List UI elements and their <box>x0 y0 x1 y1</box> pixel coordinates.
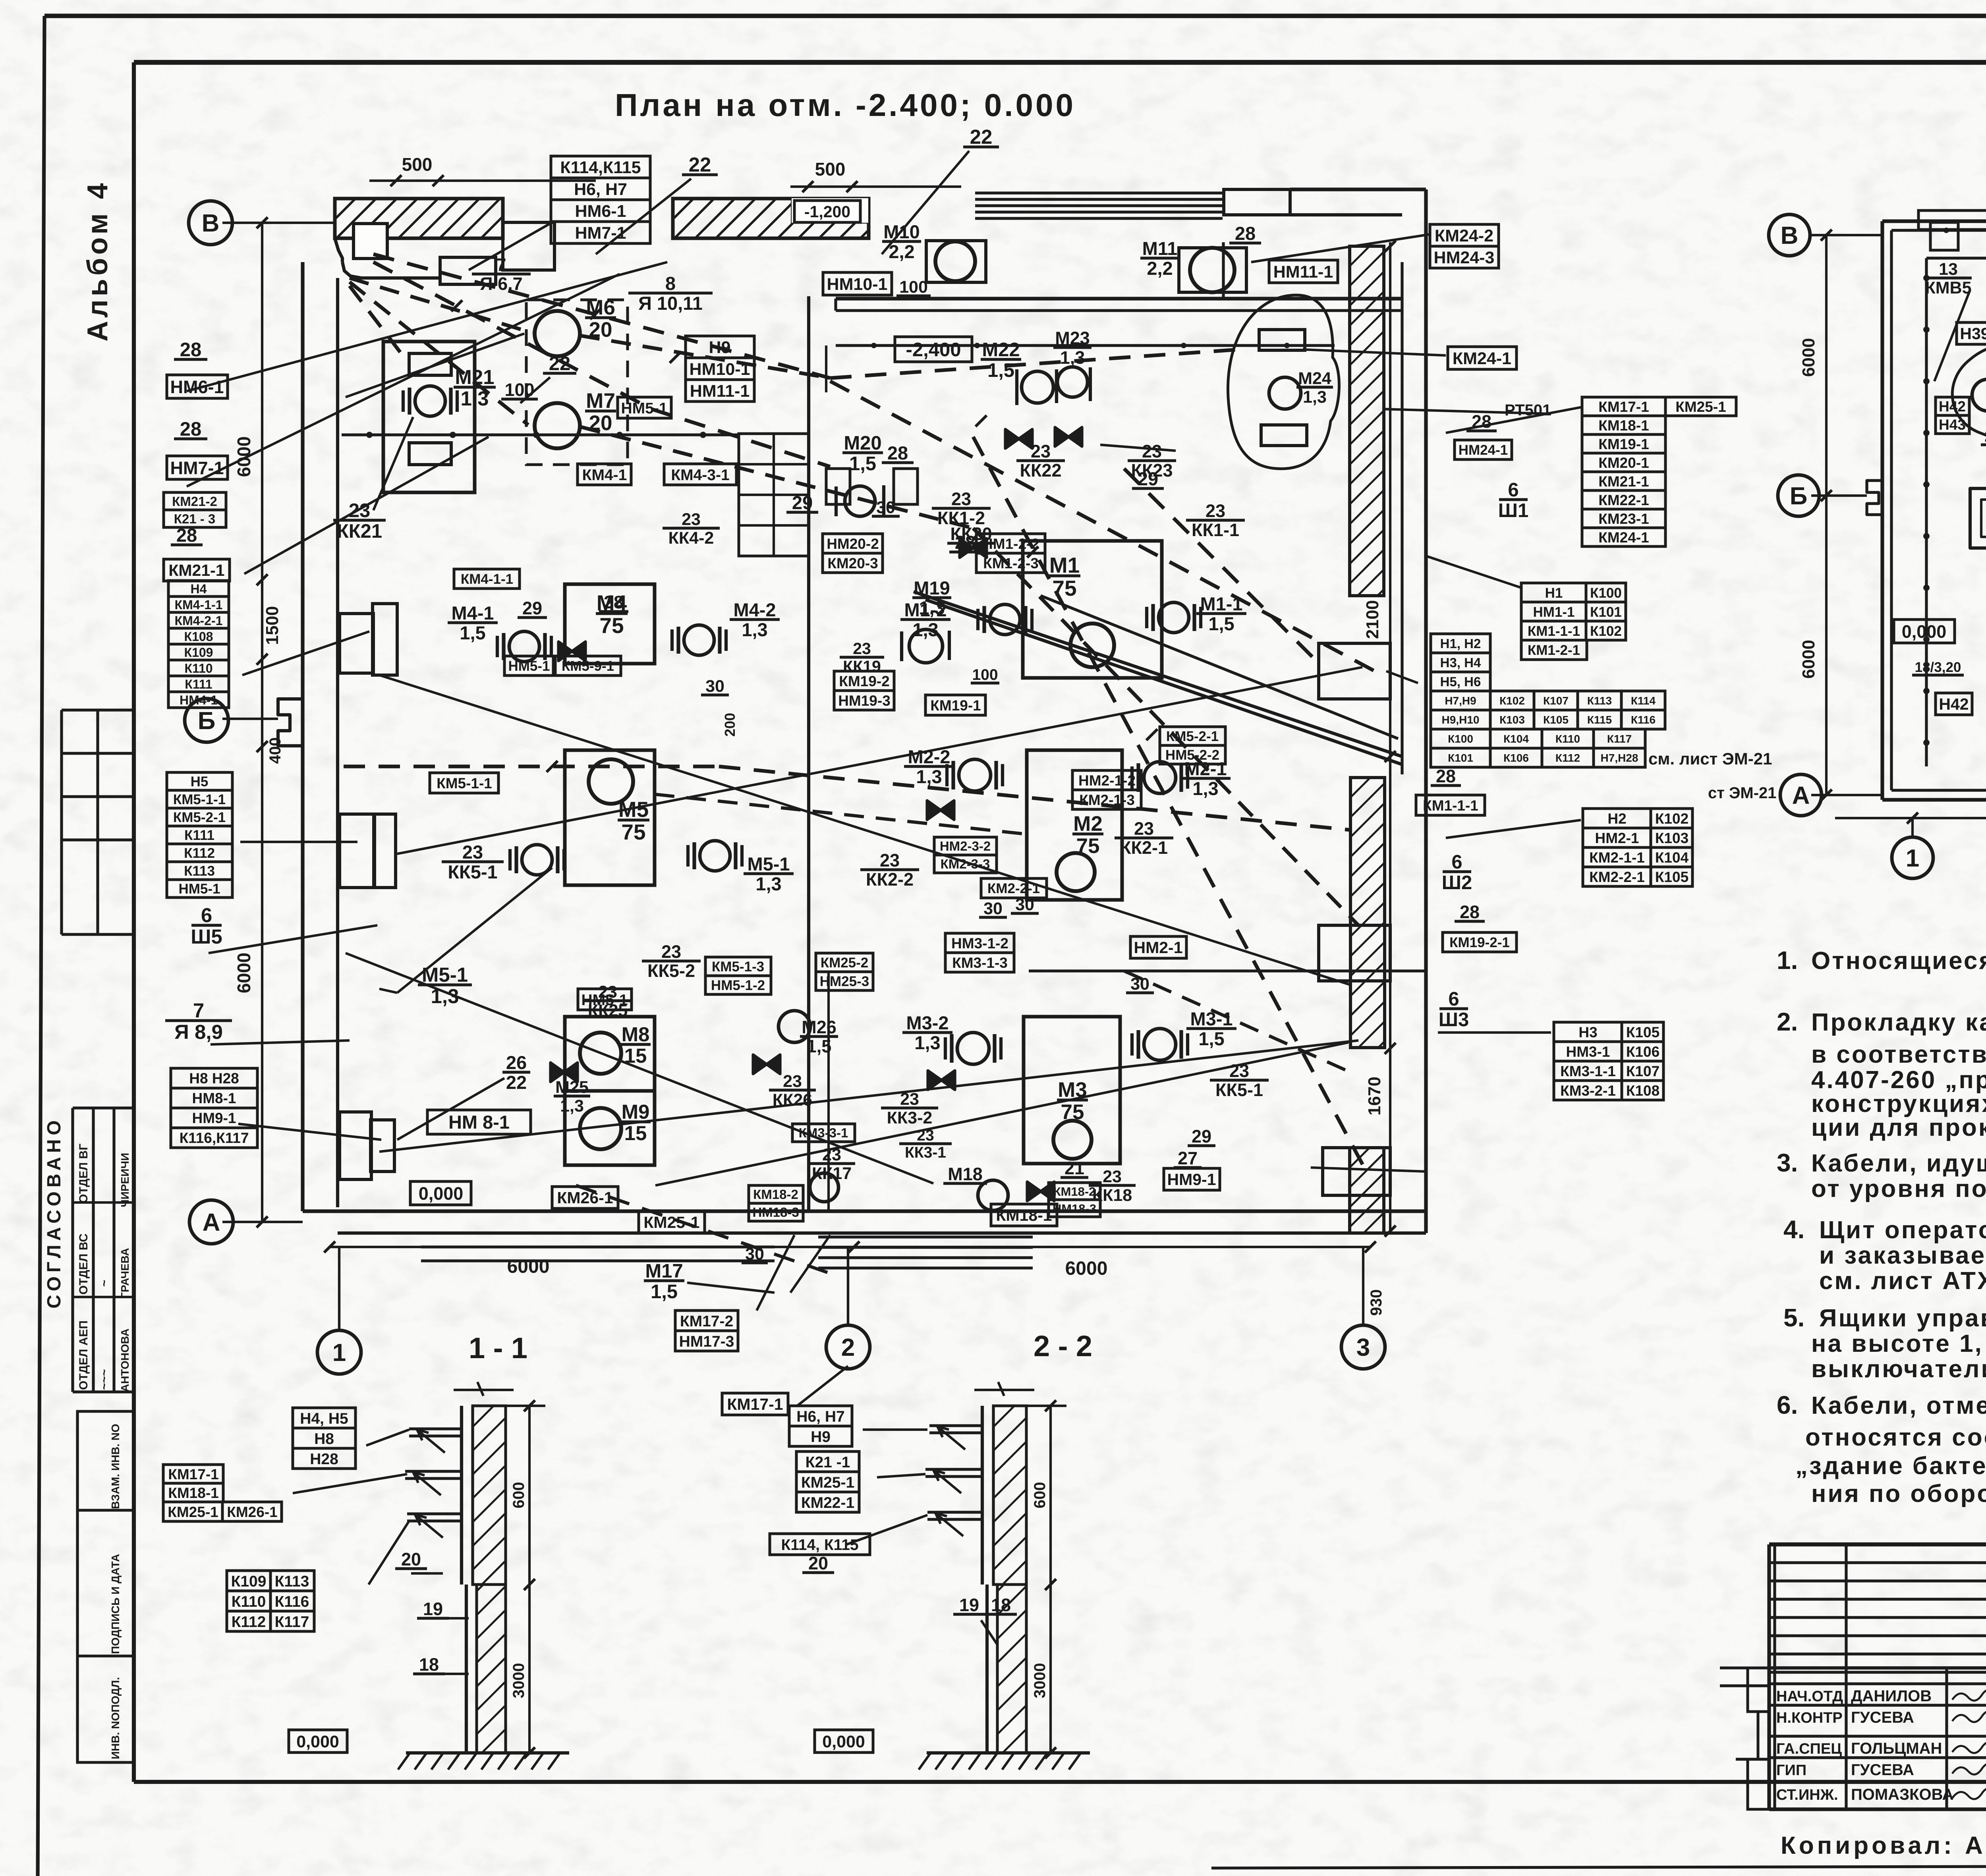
svg-text:КМ25-1: КМ25-1 <box>1675 399 1726 415</box>
svg-text:НМ10-1: НМ10-1 <box>690 360 750 379</box>
svg-text:КМ25-1: КМ25-1 <box>168 1504 218 1520</box>
svg-text:К111: К111 <box>184 828 214 843</box>
svg-text:КМ2-3-3: КМ2-3-3 <box>941 857 990 871</box>
svg-text:Н5: Н5 <box>191 774 209 789</box>
svg-text:ЧИРЕИЧИ: ЧИРЕИЧИ <box>119 1153 131 1207</box>
svg-text:План на отм. -2.400; 0.000: План на отм. -2.400; 0.000 <box>615 87 1076 123</box>
svg-text:НМ3-1-2: НМ3-1-2 <box>951 935 1008 952</box>
svg-text:1: 1 <box>332 1339 346 1366</box>
svg-text:6: 6 <box>201 904 212 926</box>
svg-text:1,3: 1,3 <box>1192 778 1218 799</box>
svg-text:КМ4-2-1: КМ4-2-1 <box>175 614 223 628</box>
svg-text:КМ5-2-1: КМ5-2-1 <box>173 810 226 825</box>
svg-text:К102: К102 <box>1655 811 1688 827</box>
svg-text:ции для прокладки кабелей: ции для прокладки кабелей". <box>1811 1114 1986 1141</box>
svg-text:НМ18-3: НМ18-3 <box>752 1205 799 1220</box>
svg-text:см. лист АТХ -9.: см. лист АТХ -9. <box>1819 1267 1986 1295</box>
svg-text:М3-2: М3-2 <box>906 1012 949 1033</box>
svg-text:КМ25-1: КМ25-1 <box>801 1474 854 1491</box>
svg-text:1,5: 1,5 <box>1198 1028 1224 1049</box>
svg-text:28: 28 <box>180 419 202 440</box>
svg-text:КМВ5: КМВ5 <box>1925 278 1971 297</box>
svg-text:Копировал: Алешцкова: Копировал: Алешцкова <box>1781 1832 1986 1859</box>
svg-text:в соответствии с типовыми: в соответствии с типовыми проектами <box>1811 1041 1986 1068</box>
svg-text:-1,200: -1,200 <box>804 203 850 221</box>
svg-text:КМ2-2-1: КМ2-2-1 <box>1589 869 1645 885</box>
svg-text:Н1, Н2: Н1, Н2 <box>1440 636 1481 651</box>
svg-text:КМ18-2: КМ18-2 <box>1053 1185 1096 1199</box>
svg-text:В: В <box>1781 222 1799 249</box>
svg-text:Н.КОНТР: Н.КОНТР <box>1776 1710 1843 1726</box>
svg-text:ОТДЕЛ ВС: ОТДЕЛ ВС <box>77 1233 90 1295</box>
svg-text:НМ5-1: НМ5-1 <box>581 992 628 1009</box>
svg-text:30: 30 <box>705 677 724 696</box>
svg-text:К110: К110 <box>184 661 213 676</box>
svg-text:Н7,Н9: Н7,Н9 <box>1445 695 1476 707</box>
svg-text:23: 23 <box>661 942 681 962</box>
svg-text:Щит оператора що устанавл: Щит оператора що устанавливается <box>1819 1216 1986 1244</box>
svg-text:23: 23 <box>917 1127 934 1144</box>
svg-text:1 - 1: 1 - 1 <box>469 1332 527 1365</box>
svg-text:23: 23 <box>853 639 871 658</box>
svg-text:М24: М24 <box>1298 369 1331 388</box>
svg-text:75: 75 <box>621 820 645 844</box>
svg-text:8: 8 <box>665 273 676 294</box>
svg-text:КМ25-1: КМ25-1 <box>643 1213 699 1231</box>
svg-text:К106: К106 <box>1626 1044 1660 1060</box>
svg-text:КК4-2: КК4-2 <box>668 529 714 548</box>
svg-text:на высоте 1, 2 м от уровня: на высоте 1, 2 м от уровня пола , пускат… <box>1811 1330 1986 1357</box>
svg-text:6.: 6. <box>1777 1391 1798 1419</box>
svg-text:28: 28 <box>180 339 202 361</box>
svg-text:1,3: 1,3 <box>1060 347 1085 368</box>
svg-text:30: 30 <box>876 498 895 517</box>
svg-text:М18: М18 <box>948 1164 983 1184</box>
svg-text:5.: 5. <box>1783 1303 1804 1332</box>
svg-text:НАЧ.ОТД: НАЧ.ОТД <box>1776 1688 1843 1705</box>
svg-text:18: 18 <box>991 1595 1011 1615</box>
svg-text:4.407-260 „прокладка кабе: 4.407-260 „прокладка кабелей на <box>1811 1066 1986 1094</box>
svg-text:Кабели, идущие на высоте: Кабели, идущие на высоте до 2ˣ метров <box>1811 1150 1986 1177</box>
svg-text:К104: К104 <box>1655 849 1689 866</box>
svg-text:К111: К111 <box>185 677 212 691</box>
svg-text:28: 28 <box>1460 902 1480 922</box>
svg-text:КМ20-1: КМ20-1 <box>1598 455 1649 471</box>
svg-text:~: ~ <box>98 1280 111 1287</box>
svg-text:ния по обороту промывной: ния по обороту промывной воды". <box>1811 1480 1986 1507</box>
svg-text:ИНВ. NОПОДЛ.: ИНВ. NОПОДЛ. <box>109 1677 122 1759</box>
svg-text:К113: К113 <box>1587 695 1612 707</box>
svg-text:К105: К105 <box>1655 869 1688 885</box>
svg-text:КМ4-1-1: КМ4-1-1 <box>175 598 223 612</box>
svg-text:НМ20-2: НМ20-2 <box>827 536 879 552</box>
svg-text:15: 15 <box>624 1122 647 1145</box>
svg-text:23: 23 <box>1134 818 1154 839</box>
svg-text:19: 19 <box>423 1599 443 1619</box>
svg-text:23: 23 <box>783 1072 802 1091</box>
svg-text:1,5: 1,5 <box>651 1281 678 1303</box>
svg-text:К107: К107 <box>1626 1063 1660 1079</box>
svg-text:КМ19-2-1: КМ19-2-1 <box>1449 935 1510 950</box>
svg-text:КМ5-1-1: КМ5-1-1 <box>437 775 492 791</box>
svg-text:Б: Б <box>1790 483 1808 510</box>
svg-text:23: 23 <box>1031 441 1051 461</box>
svg-text:Н42: Н42 <box>1939 398 1966 415</box>
svg-text:НМ2-1: НМ2-1 <box>1595 830 1639 846</box>
svg-text:НМ1-1: НМ1-1 <box>1533 604 1575 620</box>
svg-text:6000: 6000 <box>234 436 254 477</box>
svg-text:НМ8-1: НМ8-1 <box>192 1090 236 1106</box>
svg-text:М19: М19 <box>914 577 950 598</box>
svg-text:АНТОНОВА: АНТОНОВА <box>119 1328 131 1392</box>
svg-text:28: 28 <box>955 532 976 553</box>
svg-text:конструкциях". 5.407-88 „: конструкциях". 5.407-88 „Узлы и конструк… <box>1811 1090 1986 1117</box>
svg-text:28: 28 <box>1472 411 1491 432</box>
svg-text:ГРАЧЕВА: ГРАЧЕВА <box>119 1248 131 1299</box>
svg-text:Кабели, отмеченные значками: Кабели, отмеченные значками* и * *, <box>1811 1392 1986 1419</box>
svg-text:1500: 1500 <box>263 606 282 645</box>
svg-text:18/3,20: 18/3,20 <box>1915 660 1961 675</box>
svg-text:КМ25-2: КМ25-2 <box>821 955 869 971</box>
svg-text:0,000: 0,000 <box>419 1183 464 1204</box>
svg-text:1,5: 1,5 <box>460 622 485 643</box>
svg-text:К112: К112 <box>184 845 215 861</box>
svg-text:Я 10,11: Я 10,11 <box>638 293 703 314</box>
svg-text:КК5-2: КК5-2 <box>647 961 695 981</box>
svg-text:К100: К100 <box>1590 585 1622 601</box>
svg-text:и заказывается в части АТХ.: и заказывается в части АТХ. <box>1819 1242 1986 1269</box>
svg-text:КМ2-1-1: КМ2-1-1 <box>1589 849 1645 866</box>
svg-text:КМ3-1-1: КМ3-1-1 <box>1560 1063 1616 1079</box>
svg-text:КМ1-2-3: КМ1-2-3 <box>983 555 1039 571</box>
svg-text:НМ6-1: НМ6-1 <box>575 202 626 221</box>
svg-text:НМ24-3: НМ24-3 <box>1434 248 1495 267</box>
svg-text:НМ5-1: НМ5-1 <box>621 400 667 417</box>
svg-text:3.: 3. <box>1777 1148 1798 1177</box>
svg-text:КМ3-3-1: КМ3-3-1 <box>799 1125 848 1140</box>
svg-text:6: 6 <box>1451 851 1462 873</box>
svg-text:23: 23 <box>1206 501 1225 521</box>
svg-text:К110: К110 <box>1555 733 1580 745</box>
svg-text:19: 19 <box>959 1595 979 1615</box>
svg-text:КМ3-2-1: КМ3-2-1 <box>1560 1083 1616 1099</box>
svg-text:К115: К115 <box>1587 714 1612 726</box>
svg-text:НМ9-1: НМ9-1 <box>1167 1170 1216 1189</box>
svg-text:К109: К109 <box>184 645 213 660</box>
svg-text:КМ24-1: КМ24-1 <box>1598 529 1649 546</box>
svg-text:КМ18-1: КМ18-1 <box>168 1485 218 1501</box>
svg-text:К105: К105 <box>1543 714 1569 726</box>
svg-text:К117: К117 <box>1607 733 1632 745</box>
svg-text:0,000: 0,000 <box>822 1732 865 1751</box>
svg-text:26: 26 <box>506 1052 527 1073</box>
svg-text:КМ19-1: КМ19-1 <box>1598 436 1649 452</box>
svg-text:М25: М25 <box>555 1078 589 1097</box>
svg-text:2100: 2100 <box>1363 600 1382 639</box>
svg-text:6000: 6000 <box>1799 640 1818 679</box>
svg-text:НМ18-3: НМ18-3 <box>1053 1202 1096 1216</box>
svg-text:К112: К112 <box>232 1614 266 1631</box>
svg-text:ГОЛЬЦМАН: ГОЛЬЦМАН <box>1851 1740 1942 1757</box>
svg-text:-2,400: -2,400 <box>906 339 961 361</box>
svg-text:КМ18-1: КМ18-1 <box>996 1206 1052 1224</box>
svg-text:27: 27 <box>1178 1148 1198 1168</box>
svg-text:75: 75 <box>599 613 624 638</box>
svg-text:К106: К106 <box>1503 752 1529 764</box>
svg-text:М17: М17 <box>645 1260 683 1282</box>
svg-text:КМ19-2: КМ19-2 <box>839 673 889 689</box>
svg-text:НМ5-1-2: НМ5-1-2 <box>711 978 765 993</box>
svg-text:КМ24-2: КМ24-2 <box>1435 226 1493 245</box>
svg-text:К108: К108 <box>184 629 213 644</box>
svg-text:К110: К110 <box>232 1593 266 1610</box>
svg-text:КМ24-1: КМ24-1 <box>1453 349 1511 368</box>
svg-text:1,3: 1,3 <box>1303 388 1327 407</box>
svg-text:КК22: КК22 <box>1020 460 1062 481</box>
svg-text:Н4: Н4 <box>191 582 207 596</box>
svg-text:600: 600 <box>510 1482 527 1509</box>
svg-text:М1: М1 <box>1049 553 1080 577</box>
svg-text:М7: М7 <box>586 389 615 413</box>
svg-text:НМ17-3: НМ17-3 <box>679 1333 734 1350</box>
svg-text:1,3: 1,3 <box>742 619 767 640</box>
svg-text:НМ3-1: НМ3-1 <box>1566 1044 1610 1060</box>
svg-text:КМ22-1: КМ22-1 <box>801 1494 854 1511</box>
svg-text:К116: К116 <box>275 1593 309 1610</box>
svg-text:НМ6-1: НМ6-1 <box>170 377 224 397</box>
svg-text:„здание бактерицидной устан: „здание бактерицидной установки", и „ со… <box>1795 1452 1986 1480</box>
svg-text:КМ17-2: КМ17-2 <box>680 1313 733 1330</box>
svg-text:НМ2-1: НМ2-1 <box>1134 938 1182 957</box>
svg-text:1,3: 1,3 <box>755 873 781 894</box>
svg-text:ПОДПИСЬ И ДАТА: ПОДПИСЬ И ДАТА <box>109 1554 122 1654</box>
svg-text:относятся соответственно к: относятся соответственно к сооружениям <box>1805 1424 1986 1451</box>
svg-text:Относящиеся чертежи см. лист: Относящиеся чертежи см. лист ЭМ-18,ЭМ-20… <box>1811 947 1986 975</box>
svg-text:0,000: 0,000 <box>296 1732 339 1751</box>
svg-text:500: 500 <box>815 159 846 179</box>
svg-text:К105: К105 <box>1626 1024 1660 1040</box>
svg-text:НМ19-3: НМ19-3 <box>838 693 891 709</box>
svg-text:РТ501: РТ501 <box>1505 401 1551 419</box>
svg-text:А: А <box>1792 782 1810 809</box>
svg-text:100: 100 <box>504 380 534 400</box>
svg-text:НМ2-3-2: НМ2-3-2 <box>940 839 991 853</box>
svg-text:ВЗАМ. ИНВ. NО: ВЗАМ. ИНВ. NО <box>109 1424 122 1509</box>
svg-text:7: 7 <box>193 999 204 1022</box>
svg-text:23: 23 <box>880 850 900 870</box>
svg-text:20: 20 <box>808 1553 828 1573</box>
svg-text:6000: 6000 <box>1065 1258 1108 1279</box>
svg-text:НМ10-1: НМ10-1 <box>827 275 888 294</box>
svg-text:22: 22 <box>970 125 993 148</box>
svg-text:КМ4-3-1: КМ4-3-1 <box>671 467 729 484</box>
svg-text:28: 28 <box>1235 223 1256 244</box>
svg-text:23: 23 <box>1142 441 1162 461</box>
svg-text:75: 75 <box>1052 576 1076 600</box>
svg-text:22: 22 <box>506 1072 527 1093</box>
svg-text:7: 7 <box>496 255 506 275</box>
svg-text:1,5: 1,5 <box>987 360 1014 381</box>
svg-text:2,2: 2,2 <box>1147 258 1173 279</box>
svg-text:28: 28 <box>604 592 624 612</box>
svg-text:1.: 1. <box>1777 946 1798 975</box>
svg-text:Ш5: Ш5 <box>191 925 222 948</box>
svg-text:КМ5-1-1: КМ5-1-1 <box>173 792 226 807</box>
svg-text:М10: М10 <box>883 221 920 242</box>
svg-text:К113: К113 <box>275 1573 309 1590</box>
svg-text:КМ17-1: КМ17-1 <box>168 1466 218 1482</box>
svg-text:К101: К101 <box>1590 604 1622 620</box>
svg-text:6000: 6000 <box>1799 338 1818 377</box>
svg-text:К102: К102 <box>1499 695 1525 707</box>
svg-text:6: 6 <box>1448 988 1459 1010</box>
svg-text:К114,К115: К114,К115 <box>560 158 641 177</box>
svg-text:1,3: 1,3 <box>916 766 942 787</box>
svg-text:КМ26-1: КМ26-1 <box>227 1504 277 1520</box>
svg-text:2 - 2: 2 - 2 <box>1034 1330 1092 1363</box>
svg-text:ДАНИЛОВ: ДАНИЛОВ <box>1851 1687 1932 1705</box>
svg-text:28: 28 <box>887 442 908 463</box>
svg-text:Н9: Н9 <box>709 338 731 357</box>
svg-text:КМ20-3: КМ20-3 <box>827 555 878 571</box>
svg-text:К114: К114 <box>1631 695 1656 707</box>
svg-text:Н9: Н9 <box>811 1428 831 1446</box>
svg-text:К21 -1: К21 -1 <box>806 1454 850 1471</box>
svg-text:КК5-1: КК5-1 <box>1215 1080 1263 1100</box>
svg-text:4.: 4. <box>1783 1215 1804 1244</box>
svg-text:К112: К112 <box>1555 752 1580 764</box>
svg-text:КМ4-1-1: КМ4-1-1 <box>461 571 513 587</box>
svg-text:КМ5-1-3: КМ5-1-3 <box>712 959 764 975</box>
svg-text:КМ21-1: КМ21-1 <box>1598 473 1649 490</box>
svg-text:М2: М2 <box>1073 812 1103 836</box>
svg-text:Н42: Н42 <box>1939 695 1969 713</box>
svg-text:930: 930 <box>1368 1289 1385 1316</box>
svg-text:Н5, Н6: Н5, Н6 <box>1440 674 1481 689</box>
svg-text:18: 18 <box>419 1654 439 1675</box>
svg-text:М22: М22 <box>982 339 1020 361</box>
svg-text:~~~: ~~~ <box>98 1369 111 1390</box>
svg-text:3: 3 <box>1356 1334 1370 1361</box>
svg-text:Н28: Н28 <box>310 1451 338 1468</box>
svg-text:6000: 6000 <box>507 1256 550 1277</box>
svg-text:2: 2 <box>841 1334 855 1361</box>
svg-text:КК2-2: КК2-2 <box>866 869 914 890</box>
svg-text:Б: Б <box>198 707 216 735</box>
svg-text:ГУСЕВА: ГУСЕВА <box>1851 1709 1914 1726</box>
svg-text:23: 23 <box>951 489 971 509</box>
svg-text:3000: 3000 <box>510 1663 527 1698</box>
svg-text:К107: К107 <box>1543 695 1569 707</box>
svg-text:КК3-1: КК3-1 <box>905 1144 946 1161</box>
svg-text:К116: К116 <box>1631 714 1656 726</box>
svg-text:КМ26-1: КМ26-1 <box>557 1189 613 1207</box>
svg-text:К104: К104 <box>1503 733 1529 745</box>
svg-text:М20: М20 <box>844 432 881 454</box>
svg-text:Н39: Н39 <box>1960 324 1986 343</box>
svg-text:ГИП: ГИП <box>1776 1762 1806 1779</box>
svg-text:КК3-2: КК3-2 <box>887 1108 933 1127</box>
svg-text:М8: М8 <box>622 1023 650 1046</box>
svg-text:НМ7-1: НМ7-1 <box>575 224 626 243</box>
svg-text:29: 29 <box>1138 468 1158 489</box>
svg-text:НМ 8-1: НМ 8-1 <box>448 1112 510 1133</box>
svg-text:К113: К113 <box>184 863 215 879</box>
svg-text:КК5-1: КК5-1 <box>448 861 497 882</box>
svg-text:СОГЛАСОВАНО: СОГЛАСОВАНО <box>44 1116 65 1309</box>
svg-text:НМ11-1: НМ11-1 <box>690 382 750 401</box>
svg-text:2.: 2. <box>1777 1007 1798 1036</box>
svg-text:ГА.СПЕЦ: ГА.СПЕЦ <box>1776 1741 1842 1757</box>
svg-text:КМ18-2: КМ18-2 <box>753 1187 798 1202</box>
svg-text:Н8: Н8 <box>314 1430 334 1448</box>
svg-text:КМ1-1-1: КМ1-1-1 <box>1423 797 1478 814</box>
svg-text:КМ19-1: КМ19-1 <box>930 697 981 714</box>
svg-text:0,000: 0,000 <box>1902 621 1947 642</box>
svg-text:НМ5-1: НМ5-1 <box>178 881 220 897</box>
svg-text:А: А <box>203 1209 220 1236</box>
svg-text:Прокладку кабелей и проводо: Прокладку кабелей и проводов выполнить <box>1811 1009 1986 1036</box>
svg-text:КМ18-1: КМ18-1 <box>1598 417 1649 434</box>
svg-text:от уровня пола , защитить.: от уровня пола , защитить. <box>1811 1175 1986 1202</box>
svg-text:СТ.ИНЖ.: СТ.ИНЖ. <box>1776 1787 1838 1803</box>
svg-text:Н1: Н1 <box>1545 585 1563 601</box>
svg-text:М9: М9 <box>622 1100 650 1123</box>
svg-text:Ш3: Ш3 <box>1439 1009 1469 1031</box>
svg-text:К101: К101 <box>1448 752 1473 764</box>
svg-text:КМ21-2: КМ21-2 <box>172 494 217 509</box>
svg-text:ОТДЕЛ АЕП: ОТДЕЛ АЕП <box>77 1320 90 1390</box>
svg-text:НМ4-1: НМ4-1 <box>180 693 218 707</box>
svg-text:ОТДЕЛ ВГ: ОТДЕЛ ВГ <box>77 1144 90 1203</box>
svg-text:НМ7-1: НМ7-1 <box>170 458 224 478</box>
svg-text:К109: К109 <box>231 1573 267 1590</box>
svg-text:Н3, Н4: Н3, Н4 <box>1440 655 1481 670</box>
svg-text:200: 200 <box>722 713 738 737</box>
svg-text:К103: К103 <box>1655 830 1688 846</box>
svg-text:20: 20 <box>401 1549 421 1569</box>
svg-text:К108: К108 <box>1626 1083 1660 1099</box>
svg-text:6000: 6000 <box>234 953 254 993</box>
svg-text:КМ17-1: КМ17-1 <box>1598 399 1649 415</box>
svg-text:Ш1: Ш1 <box>1498 500 1529 521</box>
svg-text:НМ9-1: НМ9-1 <box>192 1110 236 1126</box>
svg-text:К100: К100 <box>1448 733 1473 745</box>
svg-text:выключатели 1, 5 м от ур: выключатели 1, 5 м от уровня пола . <box>1811 1355 1986 1383</box>
svg-text:Н4, Н5: Н4, Н5 <box>300 1410 348 1427</box>
svg-text:Н3: Н3 <box>1578 1024 1597 1040</box>
svg-text:23: 23 <box>462 841 483 863</box>
svg-text:100: 100 <box>972 666 998 683</box>
svg-text:Н6, Н7: Н6, Н7 <box>796 1408 844 1425</box>
svg-text:23: 23 <box>1103 1167 1122 1186</box>
svg-text:КК21: КК21 <box>337 521 382 542</box>
svg-text:1: 1 <box>1906 845 1919 872</box>
svg-text:К102: К102 <box>1590 623 1622 639</box>
svg-text:22: 22 <box>1984 427 1986 445</box>
svg-text:К21 - 3: К21 - 3 <box>174 511 216 526</box>
svg-text:см. лист ЭМ-21: см. лист ЭМ-21 <box>1648 749 1772 768</box>
svg-text:Н2: Н2 <box>1607 811 1626 827</box>
svg-text:КК1-1: КК1-1 <box>1192 520 1239 540</box>
svg-text:ст ЭМ-21: ст ЭМ-21 <box>1708 784 1777 802</box>
svg-text:КМ17-1: КМ17-1 <box>727 1395 783 1413</box>
svg-text:1,3: 1,3 <box>560 1096 584 1116</box>
svg-text:ГУСЕВА: ГУСЕВА <box>1851 1761 1914 1779</box>
svg-text:КМ1-1-1: КМ1-1-1 <box>1528 623 1580 639</box>
svg-text:В: В <box>202 210 220 237</box>
svg-text:КМ5-2-1: КМ5-2-1 <box>1166 729 1219 744</box>
